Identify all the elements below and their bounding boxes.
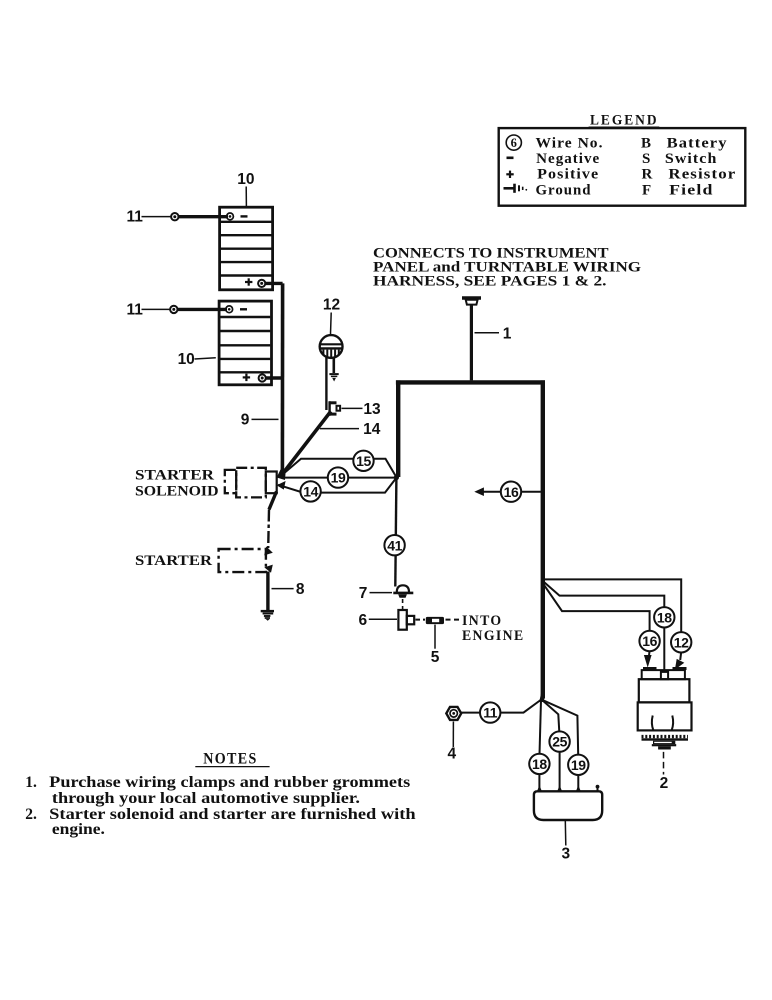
- svg-text:12: 12: [674, 634, 689, 650]
- legend entry: B Battery: [641, 135, 728, 151]
- junction at solenoid (arrow): [277, 468, 286, 481]
- wire 16 arrow into component 2: [644, 651, 652, 668]
- wire 18 into component 2: [663, 627, 665, 670]
- circled wire number 18 (right): [654, 607, 674, 627]
- wire 8 vertical: [266, 572, 269, 611]
- svg-text:Battery: Battery: [667, 135, 728, 151]
- wire from switch to solenoid junction (thick diagonal): [282, 411, 331, 474]
- wire 19: [283, 477, 397, 479]
- label 4: [447, 722, 456, 763]
- label 7: [359, 585, 392, 602]
- svg-text:HARNESS, SEE PAGES 1 & 2.: HARNESS, SEE PAGES 1 & 2.: [373, 274, 607, 290]
- harness trunk left vertical: [396, 380, 400, 477]
- wire solenoid to starter (phantom vertical): [267, 510, 270, 549]
- arrow into starter: [264, 546, 273, 555]
- svg-text:18: 18: [657, 609, 672, 625]
- circled wire number 16 (right): [639, 631, 659, 651]
- circled wire number 19 (down): [568, 755, 588, 775]
- legend title LEGEND: [589, 113, 660, 129]
- starter solenoid component (phantom outline): [225, 468, 266, 498]
- svg-text:STARTER: STARTER: [135, 553, 212, 569]
- wire to 16 (right branch): [543, 583, 650, 632]
- battery B1 label 10: [237, 171, 254, 207]
- svg-text:10: 10: [178, 351, 195, 368]
- lamp right lead to ground: [329, 357, 338, 381]
- wire 25 tail into component 3: [557, 751, 562, 792]
- svg-text:9: 9: [241, 411, 250, 428]
- wire 11 (to terminal 4): [461, 700, 541, 713]
- circled wire number 15: [353, 451, 373, 471]
- component 6 (plug into engine): [398, 610, 414, 630]
- dashed wire between 7 and 6: [402, 599, 404, 610]
- circled wire number 16 (middle): [501, 482, 521, 502]
- svg-text:6: 6: [358, 612, 367, 629]
- wire 19 tail into component 3: [576, 774, 581, 791]
- harness trunk right vertical: [541, 380, 545, 698]
- svg-text:11: 11: [127, 209, 144, 226]
- circled wire number 12 (right): [671, 632, 691, 652]
- svg-text:R: R: [642, 167, 653, 183]
- svg-text:Resistor: Resistor: [668, 167, 736, 183]
- battery B1 (upper): [220, 207, 273, 290]
- circled wire number 41: [384, 535, 404, 555]
- junction node on trunk: [394, 475, 399, 480]
- svg-text:14: 14: [303, 484, 318, 500]
- wire from B1 positive to wire 9: [265, 282, 283, 285]
- note: CONNECTS TO INSTRUMENT PANEL text: [373, 245, 641, 289]
- svg-text:10: 10: [237, 171, 254, 188]
- wire to 18 (right branch): [543, 581, 665, 608]
- wire 15: [283, 459, 397, 478]
- svg-text:LEGEND: LEGEND: [590, 113, 659, 129]
- wire 1 vertical: [470, 305, 473, 381]
- svg-text:4: 4: [447, 746, 456, 763]
- notes item 2: [25, 806, 416, 838]
- circled wire number 19: [328, 467, 348, 487]
- svg-text:15: 15: [356, 453, 371, 469]
- connector 5 with dashed leads: [416, 617, 462, 624]
- svg-text:2.: 2.: [25, 806, 37, 823]
- label: STARTER SOLENOID: [135, 468, 219, 500]
- battery B2 (lower): [219, 301, 271, 385]
- svg-text:1: 1: [503, 325, 512, 342]
- wire 9 vertical: [281, 283, 285, 473]
- wire 14 label (plain): [320, 421, 381, 438]
- notes title NOTES: [195, 751, 269, 768]
- bottom junction fan on trunk: [539, 694, 544, 702]
- svg-text:19: 19: [331, 470, 346, 486]
- wire 9 label: [241, 411, 279, 428]
- svg-text:Field: Field: [669, 183, 714, 199]
- svg-text:1.: 1.: [25, 774, 37, 791]
- svg-text:NOTES: NOTES: [203, 751, 258, 768]
- switch 13: [329, 401, 340, 415]
- battery B1 negative terminal: [227, 213, 248, 220]
- wire 11 to battery B2: [127, 302, 227, 319]
- svg-text:19: 19: [571, 757, 586, 773]
- terminal nut (4): [446, 707, 461, 720]
- wire 1 label: [475, 325, 512, 342]
- svg-text:12: 12: [323, 297, 340, 314]
- circled wire number 14: [300, 481, 320, 501]
- wire 18 down to component 3: [540, 700, 542, 754]
- svg-text:11: 11: [127, 302, 144, 319]
- wire to 12 (right branch): [543, 579, 681, 633]
- svg-text:2: 2: [660, 775, 669, 792]
- svg-text:25: 25: [552, 734, 567, 750]
- note: INTO ENGINE: [462, 613, 525, 644]
- legend entry: S Switch: [642, 151, 717, 167]
- label 5: [431, 625, 440, 666]
- circled wire number 25: [549, 731, 569, 751]
- legend wire-number symbol (circled 6): [506, 135, 521, 150]
- component 7 (engine sender): [393, 585, 413, 597]
- svg-text:5: 5: [431, 649, 440, 666]
- svg-text:INTO: INTO: [462, 613, 503, 629]
- wire 11 to battery B1: [127, 209, 228, 226]
- svg-text:14: 14: [363, 421, 381, 438]
- svg-text:7: 7: [359, 585, 368, 602]
- svg-text:8: 8: [296, 581, 305, 598]
- svg-text:SOLENOID: SOLENOID: [135, 484, 219, 500]
- legend ground symbol: [504, 184, 528, 193]
- svg-text:STARTER: STARTER: [135, 468, 214, 484]
- svg-text:S: S: [642, 151, 650, 167]
- lamp left lead wire: [325, 357, 327, 410]
- starter solenoid terminal block: [266, 472, 277, 494]
- spare terminal nub on component 3: [596, 785, 600, 792]
- starter component (phantom outline): [219, 549, 266, 572]
- legend entry: F Field: [642, 183, 714, 199]
- wire 19 down to component 3: [542, 700, 578, 755]
- svg-text:3: 3: [561, 845, 570, 862]
- circled wire number 11: [480, 702, 500, 722]
- label 6: [358, 612, 397, 629]
- svg-text:Switch: Switch: [665, 151, 718, 167]
- svg-text:13: 13: [363, 401, 381, 418]
- wire 18 tail into component 3: [537, 774, 542, 792]
- svg-text:Negative: Negative: [536, 151, 600, 167]
- wire 12 arrow into component 2: [675, 652, 684, 670]
- harness trunk left lower wire (to 41/7): [395, 478, 396, 587]
- ground (starter): [261, 611, 274, 621]
- svg-text:16: 16: [504, 484, 519, 500]
- lamp 12 label: [323, 297, 340, 335]
- battery B2 negative terminal: [226, 306, 247, 313]
- arrow at starter bottom: [264, 565, 273, 573]
- svg-text:Purchase wiring clamps and rub: Purchase wiring clamps and rubber gromme…: [49, 774, 410, 791]
- lamp 12: [320, 335, 343, 358]
- svg-text:6: 6: [511, 136, 517, 150]
- legend negative symbol: [507, 157, 514, 160]
- wire 16 arrow (into trunk): [474, 487, 541, 496]
- svg-text:ENGINE: ENGINE: [462, 628, 525, 644]
- svg-text:11: 11: [483, 705, 498, 721]
- component 3 (junction block): [534, 791, 602, 820]
- legend box: [499, 128, 746, 206]
- label 3: [561, 820, 570, 862]
- svg-text:Wire No.: Wire No.: [536, 135, 604, 151]
- battery B2 label 10: [178, 351, 216, 368]
- svg-text:41: 41: [387, 537, 402, 553]
- wire 1 connector at top: [462, 298, 481, 305]
- battery B1 positive terminal: [245, 278, 265, 287]
- wire 25 down to component 3: [542, 700, 560, 733]
- svg-text:F: F: [642, 183, 651, 199]
- svg-text:16: 16: [642, 633, 657, 649]
- svg-text:Positive: Positive: [537, 167, 599, 183]
- wire 8 label: [272, 581, 305, 598]
- label 2: [660, 752, 669, 792]
- svg-text:engine.: engine.: [52, 821, 105, 838]
- battery B2 positive terminal: [243, 374, 266, 382]
- svg-text:Ground: Ground: [536, 183, 592, 199]
- legend entry: R Resistor: [642, 167, 737, 183]
- switch 13 label: [342, 401, 381, 418]
- circled wire number 18 (down): [529, 754, 549, 774]
- svg-text:through your local automotive: through your local automotive supplier.: [52, 790, 360, 807]
- harness trunk top bar: [396, 380, 545, 384]
- wire solenoid to starter (diagonal): [269, 492, 277, 510]
- wire 14 arrow at solenoid: [277, 481, 286, 490]
- svg-text:18: 18: [532, 756, 547, 772]
- component 2 (gauge sender unit): [638, 669, 692, 750]
- legend positive symbol: [506, 171, 513, 178]
- svg-text:B: B: [641, 135, 651, 151]
- wire 14: [278, 478, 397, 493]
- notes item 1: [25, 774, 410, 807]
- wire from B2 positive to wire 9: [266, 376, 283, 379]
